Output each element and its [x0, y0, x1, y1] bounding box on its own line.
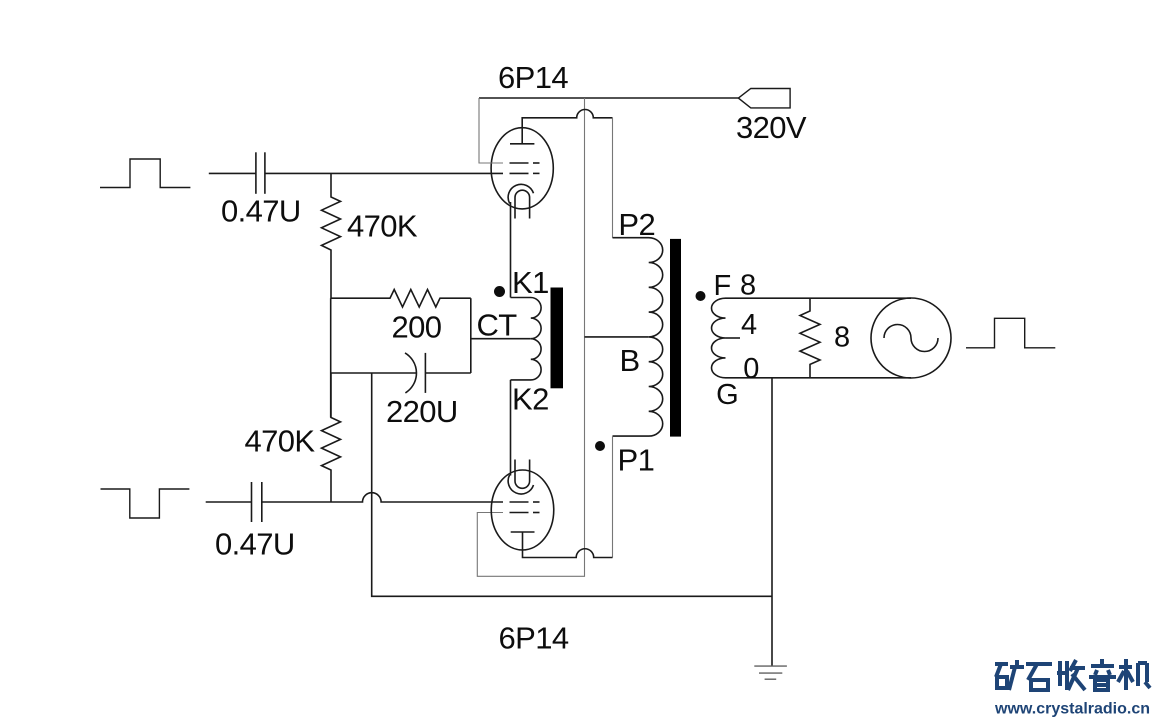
tube V1 heater	[515, 190, 530, 218]
phase dot F	[696, 291, 706, 301]
tube V1 envelope	[491, 128, 553, 209]
wire	[330, 298, 332, 417]
svg-text:K1: K1	[512, 265, 549, 300]
plate wire V2 with hop	[523, 532, 613, 558]
wire (0 tap to load, node G)	[726, 377, 912, 379]
320V supply rail wire	[479, 97, 738, 99]
svg-text:0.47U: 0.47U	[215, 527, 295, 562]
wire with hop over feedback line	[262, 493, 503, 502]
tube V1 plate	[510, 143, 534, 145]
svg-text:200: 200	[392, 310, 442, 345]
P2 lead (thin)	[612, 118, 614, 238]
plate wire V1 with hop	[522, 110, 612, 144]
logo text block (crystalradio)	[995, 659, 1150, 690]
tube V2 control grid dashes	[510, 501, 540, 503]
tube V2 plate	[511, 531, 535, 533]
svg-text:CT: CT	[477, 308, 518, 343]
tube V1 screen grid dashes	[510, 162, 540, 164]
output pulse waveform	[966, 318, 1055, 348]
svg-text:F: F	[714, 270, 731, 302]
wire	[470, 298, 472, 373]
resistor R 200 (cathode bias)	[331, 290, 471, 308]
transformer T1 secondary winding	[712, 298, 726, 378]
svg-text:www.crystalradio.cn: www.crystalradio.cn	[994, 701, 1150, 718]
P1 lead (thin)	[612, 436, 614, 557]
tube V2 heater	[515, 460, 530, 489]
svg-text:G: G	[716, 379, 738, 411]
svg-text:8: 8	[740, 270, 756, 302]
transformer cathode winding K1/K2	[511, 298, 542, 380]
ground symbol	[754, 666, 787, 679]
input pulse waveform (top)	[100, 159, 190, 188]
cathode wire V2 from K2	[510, 380, 512, 476]
svg-text:470K: 470K	[245, 424, 316, 459]
transformer core bar (cathode side)	[551, 288, 564, 389]
capacitor 0.47U (bottom input coupling)	[252, 482, 262, 522]
cathode wire V1 to K1	[510, 202, 512, 298]
CT tap wire	[471, 338, 531, 340]
svg-text:P2: P2	[618, 207, 655, 242]
transformer core bar (primary/secondary)	[670, 239, 681, 437]
svg-text:320V: 320V	[736, 110, 807, 145]
AC source / scope circle	[871, 298, 951, 378]
capacitor 220U (cathode bypass)	[331, 353, 471, 393]
wire	[206, 501, 252, 503]
tube V2 envelope	[491, 470, 554, 550]
B tap wire	[585, 336, 649, 338]
tube V2 cathode	[508, 475, 533, 494]
sine symbol	[884, 325, 938, 352]
phase dot P1	[595, 441, 605, 451]
svg-text:6P14: 6P14	[498, 60, 568, 95]
svg-text:220U: 220U	[386, 394, 458, 429]
svg-text:0.47U: 0.47U	[221, 194, 301, 229]
svg-text:K2: K2	[512, 382, 549, 417]
tube V1 cathode	[508, 184, 533, 203]
resistor R 470K (top grid leak)	[322, 173, 341, 298]
tube V2 6P14 (bottom, inverted)	[491, 460, 554, 551]
tube V2 screen grid dashes	[510, 512, 540, 514]
svg-text:B: B	[620, 343, 640, 378]
input pulse waveform (bottom, inverted)	[101, 489, 190, 518]
tube V1 6P14 (top)	[491, 128, 553, 219]
ground feedback wire and bottom rail	[372, 373, 772, 596]
svg-text:470K: 470K	[347, 208, 418, 243]
wire (8 tap to load, node F/8)	[726, 297, 912, 299]
svg-text:8: 8	[834, 322, 850, 354]
svg-text:P1: P1	[618, 443, 655, 478]
svg-text:4: 4	[741, 309, 757, 341]
capacitor 0.47U (top input coupling)	[256, 152, 265, 194]
svg-text:6P14: 6P14	[499, 621, 569, 656]
wire	[209, 172, 256, 174]
resistor R 470K (bottom grid leak)	[322, 373, 341, 502]
tube V1 control grid dashes	[510, 172, 540, 174]
resistor 8 ohm load	[800, 298, 820, 378]
ground wire from 0 tap	[771, 378, 773, 666]
supply flag 320V	[738, 89, 790, 108]
transformer primary winding P2-B-P1	[613, 238, 663, 436]
screen supply wire (thin)	[479, 98, 503, 163]
wire	[265, 172, 503, 174]
phase dot K1	[494, 286, 505, 297]
B+ line (thin) from rail to lower screen	[477, 98, 584, 576]
secondary 4-ohm tap stub	[726, 337, 741, 339]
svg-text:0: 0	[743, 353, 759, 385]
